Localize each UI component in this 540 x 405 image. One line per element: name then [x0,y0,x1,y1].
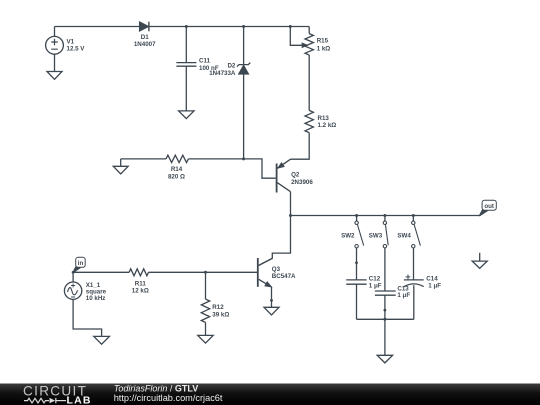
node junction R14/D2 [242,157,245,160]
node junction at C11 tap [185,25,188,28]
svg-text:in: in [78,260,84,267]
svg-text:R11: R11 [135,280,147,287]
flag out [479,200,496,216]
svg-text:1 μF: 1 μF [397,292,410,299]
wire R14 to Q2 base [188,159,275,178]
node in anchor [72,271,75,274]
svg-text:D2: D2 [227,63,235,70]
svg-text:12 kΩ: 12 kΩ [132,288,149,295]
zener diode D2 [243,27,245,65]
logo waveform [24,398,66,403]
wire SW2 to C12 [356,248,358,280]
svg-text:C11: C11 [199,58,211,65]
svg-text:39 kΩ: 39 kΩ [212,311,229,318]
svg-text:V1: V1 [67,38,75,45]
svg-text:D1: D1 [141,34,149,41]
svg-text:1 μF: 1 μF [428,283,441,290]
ground left of R14 [120,159,122,166]
resistor R11 [129,269,148,276]
capacitor C12 [346,280,366,284]
resistor R14 [166,155,188,162]
svg-text:BC547A: BC547A [272,273,296,280]
voltage source V1 [46,36,64,54]
ground below V1 [47,72,62,80]
svg-text:R12: R12 [212,304,224,311]
svg-text:SW3: SW3 [369,232,383,239]
svg-text:Q3: Q3 [272,266,281,273]
node junction R12 tap [204,271,207,274]
node junction collector/out rail [289,214,292,217]
wire out rail [291,215,481,217]
svg-text:C12: C12 [369,276,381,283]
svg-text:1.2 kΩ: 1.2 kΩ [318,122,337,129]
svg-text:SW4: SW4 [397,232,411,239]
switch SW2 [355,214,364,248]
flag in [73,257,85,272]
svg-text:1 kΩ: 1 kΩ [317,46,331,53]
transistor Q3 [258,258,273,287]
svg-text:10 kHz: 10 kHz [86,295,106,302]
wire X1 to ground [73,299,102,336]
node junction at R15 wiper tap [289,25,292,28]
switch SW3 [383,214,388,248]
wire R15 to R13 [308,55,310,110]
wire Q3 emitter to ground [271,287,273,307]
svg-text:SW2: SW2 [341,232,355,239]
svg-text:R14: R14 [171,166,183,173]
ground floating right [479,253,481,261]
wire R11 to Q3 base [149,271,258,273]
potentiometer R15 [290,27,302,46]
transistor Q2 [277,159,291,192]
svg-text:1 μF: 1 μF [369,283,382,290]
wire R13 to Q2 emitter [291,133,310,160]
capacitor C13 [375,291,396,295]
svg-text:1N4007: 1N4007 [134,41,156,48]
wire ground to R14 [121,158,166,160]
switch SW4 [412,214,421,248]
ground below X1 [94,336,110,344]
capacitor C14 polarized [404,279,424,281]
node junction at D2 tap [242,25,245,28]
wire Q2 collector / Q3 collector column [259,192,291,266]
svg-text:Q2: Q2 [291,172,300,179]
svg-text:1N4733A: 1N4733A [209,70,236,77]
wire input row [73,271,129,273]
wire V1 top stub [54,27,56,37]
svg-text:http://circuitlab.com/crjac6t: http://circuitlab.com/crjac6t [114,393,223,403]
svg-text:out: out [484,203,494,210]
resistor R12 [205,272,207,299]
svg-text:12.5 V: 12.5 V [67,45,86,52]
source X1_1 [72,272,74,282]
diode D1 [140,22,149,32]
wire SW3 to C13 [384,248,386,291]
resistor R13 [305,110,313,132]
wire bottom rail [357,318,414,320]
svg-text:2N3906: 2N3906 [291,179,313,186]
ground below caps [384,319,386,355]
svg-text:820 Ω: 820 Ω [168,174,185,181]
svg-text:LAB: LAB [67,394,92,405]
svg-text:R13: R13 [318,115,330,122]
ground below C11 [179,111,194,119]
wire V1 bottom [54,54,56,71]
ground below R12 [198,335,213,343]
wire SW4 to C14 [413,248,415,280]
capacitor C11 [185,27,187,63]
svg-text:R15: R15 [317,38,329,45]
svg-text:C14: C14 [426,276,438,283]
wire top rail [55,26,310,28]
ground below Q3 [264,307,279,315]
